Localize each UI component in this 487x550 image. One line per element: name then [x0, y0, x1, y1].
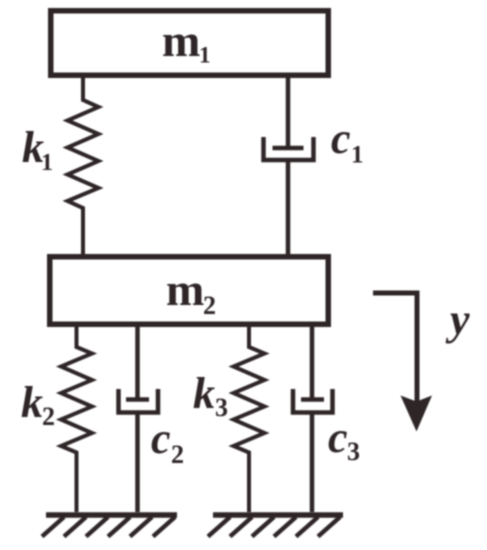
svg-text:2: 2 [42, 402, 55, 431]
svg-text:c: c [328, 413, 348, 462]
ground right hatches [208, 517, 340, 537]
damper c1 piston [273, 146, 304, 151]
damper c1 cup [264, 137, 314, 160]
ground right line [213, 512, 343, 518]
svg-text:1: 1 [351, 142, 364, 169]
svg-text:y: y [445, 295, 470, 344]
ground left line [46, 512, 177, 518]
mass m2 box [50, 257, 329, 325]
damper c3 rod bottom [310, 413, 315, 513]
spring k2 [61, 327, 92, 512]
y arrow corner [373, 293, 417, 406]
svg-text:c: c [151, 414, 171, 463]
damper c3 piston [301, 397, 324, 402]
svg-text:m: m [166, 264, 204, 315]
svg-text:1: 1 [199, 43, 211, 68]
damper c1 rod bottom [286, 160, 291, 254]
mass m1 box [51, 11, 329, 76]
svg-text:m: m [162, 15, 200, 66]
damper c3 cup [293, 389, 333, 413]
damper c3 rod top [310, 327, 315, 400]
svg-text:2: 2 [203, 291, 216, 320]
y arrowhead [401, 396, 433, 432]
svg-text:3: 3 [215, 393, 228, 422]
svg-text:3: 3 [347, 437, 360, 466]
damper c2 rod bottom [135, 413, 140, 513]
damper c2 cup [119, 389, 159, 413]
svg-text:1: 1 [41, 150, 53, 176]
spring k1 [68, 78, 99, 254]
damper c2 rod top [135, 327, 140, 400]
svg-text:k: k [193, 369, 215, 418]
svg-text:c: c [331, 114, 351, 163]
svg-text:k: k [21, 378, 43, 427]
damper c1 rod top [286, 78, 291, 148]
spring k3 [234, 327, 265, 512]
ground left hatches [42, 517, 175, 537]
damper c2 piston [126, 397, 149, 402]
svg-text:2: 2 [171, 440, 184, 469]
